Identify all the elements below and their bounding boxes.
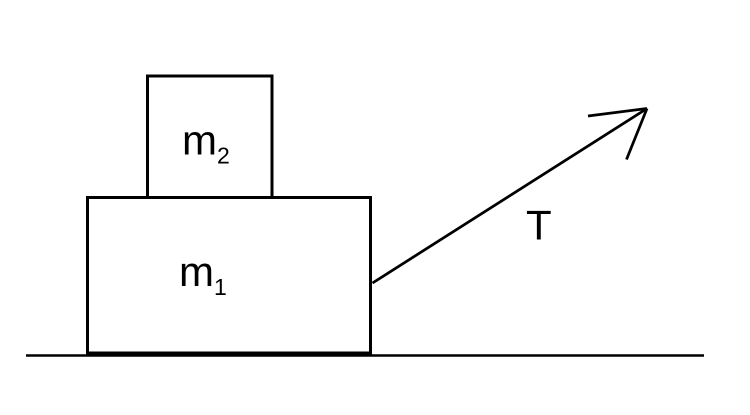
- arrowhead barb upper: [588, 109, 647, 117]
- arrowhead barb lower: [627, 109, 648, 160]
- block m2: [148, 76, 273, 198]
- ground line: [26, 354, 704, 357]
- svg-text:T: T: [526, 202, 552, 249]
- block m1: [88, 198, 371, 354]
- tension arrow shaft: [373, 109, 648, 284]
